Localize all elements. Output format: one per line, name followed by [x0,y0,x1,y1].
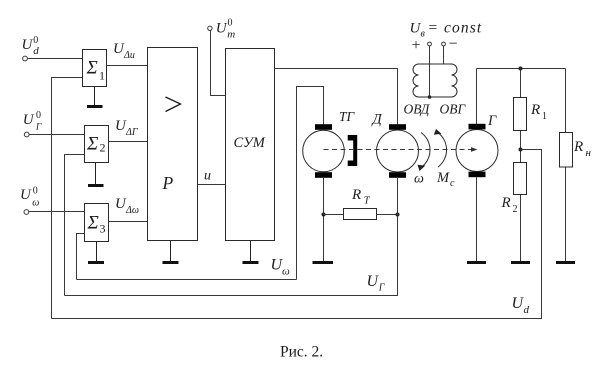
shaft arrow [471,147,478,152]
svg-text:= const: = const [428,20,483,37]
svg-text:d: d [524,304,530,316]
svg-text:2: 2 [513,204,518,215]
svg-text:Д: Д [371,112,383,128]
svg-text:3: 3 [100,222,106,236]
wire Uv plus down through coil [429,46,431,97]
svg-text:m: m [227,29,235,41]
wire Uw0 to S3 [29,211,84,213]
svg-text:ТГ: ТГ [339,109,356,124]
resistor Rn [560,133,573,168]
summator S2 [85,126,109,163]
shaft dashed line [324,149,472,151]
ground S1 [94,87,96,106]
terminal Ud0 [23,56,28,61]
svg-text:+: + [412,37,421,54]
svg-text:R: R [351,187,361,203]
ground S3 [96,242,98,262]
terminal Ug0 [24,132,29,137]
svg-text:Δω: Δω [125,205,139,216]
junction coil bottom [428,95,432,99]
junction TG-Rt [322,213,326,217]
svg-text:R: R [530,102,540,118]
ground R2 [511,261,530,264]
motor D [377,130,419,172]
svg-text:ω: ω [282,266,290,278]
ground TG [313,261,334,264]
wire Uw feedback into S3 [77,234,85,280]
junction D-Rt [396,213,400,217]
svg-text:P: P [162,173,174,193]
svg-text:2: 2 [100,141,106,155]
amplifier symbol in P [166,97,181,112]
svg-text:в: в [421,28,426,39]
wire TG output up-over-down to Uw line [297,87,324,280]
ground P [170,241,172,262]
junction top rail R1 [519,67,523,71]
svg-text:Г: Г [378,283,385,294]
svg-text:d: d [33,45,39,57]
svg-text:U: U [22,37,34,53]
generator G [456,130,498,172]
wire Rn to ground [565,167,567,261]
arrowhead arc Mc [434,129,442,135]
ground S2 [95,163,97,185]
wire Ud feedback into S1 [52,78,83,319]
svg-text:с: с [450,178,455,189]
resistor R2 [514,163,527,195]
ground Rn [556,261,575,264]
wire Ud tap to feedback [52,150,542,319]
regulator block P [148,48,198,241]
svg-text:R: R [573,139,583,155]
svg-text:СУМ: СУМ [234,135,266,151]
svg-text:Σ: Σ [87,213,99,234]
wire Uv minus down to coil top [443,46,445,64]
wire Um0 to SUM [211,31,226,96]
svg-text:0: 0 [36,110,41,121]
wire Ug feedback into S2 [65,155,85,296]
terminal Uv plus [428,42,432,46]
resistor R1 [514,98,527,131]
ground G [467,261,486,264]
tachogenerator TG [303,130,345,172]
wire Ug0 to S2 [29,134,84,136]
terminal Um0 [208,26,212,30]
wire R1 to R2 [520,131,522,163]
ground SUM [250,241,252,262]
wire S3 output U_dw [109,221,148,223]
wire R2 to ground [520,195,522,262]
svg-text:u: u [204,169,211,184]
svg-text:1: 1 [99,69,105,83]
svg-text:н: н [586,147,592,159]
svg-text:1: 1 [542,111,547,122]
wire G top to rail [476,69,478,125]
torque arc Mc [438,132,447,167]
junction R1-R2 divider [519,148,523,152]
svg-text:Г: Г [35,122,42,132]
svg-text:Δu: Δu [123,50,135,61]
svg-text:ОВГ: ОВГ [440,102,467,117]
svg-text:U: U [23,112,35,128]
wire u from P to SUM [198,184,226,186]
wire TG bottom to ground [323,178,325,261]
wire rail to R1 [520,69,522,98]
svg-text:R: R [501,195,511,211]
svg-text:M: M [436,170,450,186]
svg-text:0: 0 [228,18,233,29]
wire rail to Rn [565,69,567,133]
svg-text:−: − [449,36,458,53]
svg-text:Σ: Σ [86,134,98,155]
terminal Uv minus [442,42,446,46]
wire S2 output U_dg [109,141,148,143]
svg-text:Рис. 2.: Рис. 2. [280,344,323,361]
summator block SUM [226,49,275,241]
svg-text:ω: ω [32,197,39,208]
svg-text:Г: Г [487,113,497,129]
summator S3 [85,204,109,242]
svg-text:ОВД: ОВД [404,102,431,117]
wire Uw feedback line [77,279,297,281]
terminal Uw0 [24,210,29,215]
wire top rail G to Rn [477,68,566,70]
summator S1 [83,50,107,87]
mechanical coupling bracket [348,135,358,166]
rotation arc w [421,133,430,168]
wire D bottom to Ug feedback line [65,178,398,296]
svg-text:U: U [216,21,228,37]
wire S1 output U_du [107,65,148,67]
svg-text:ω: ω [414,172,424,187]
svg-text:Σ: Σ [86,58,98,79]
svg-text:0: 0 [33,186,38,197]
resistor Rt [324,214,344,216]
svg-text:U: U [367,273,380,290]
svg-text:U: U [20,187,32,203]
field winding OVD OVG coil [413,64,457,97]
wire Ud0 to S1 [27,58,82,60]
wire G bottom to ground [476,177,478,261]
svg-text:ΔГ: ΔГ [125,127,138,138]
wire SUM output to motor D armature [275,69,398,125]
arrowhead arc w [418,165,426,171]
